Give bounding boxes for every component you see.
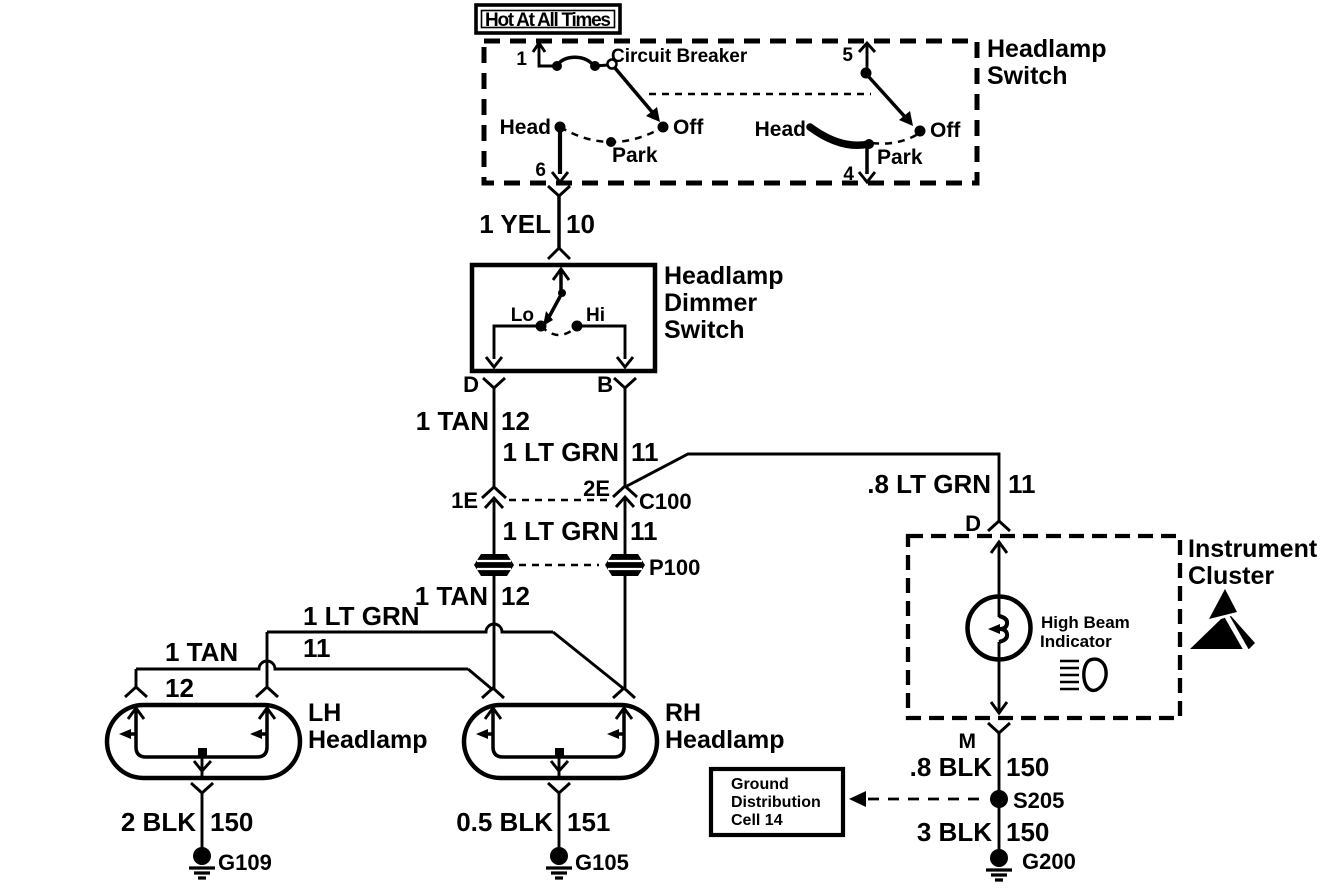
svg-text:Distribution: Distribution [731, 794, 821, 811]
switch lever to Off (right) [868, 76, 913, 126]
wire bulb to pin M [998, 661, 1001, 712]
contact Head (left) [555, 122, 566, 133]
diagonal TAN into RH left pin [468, 669, 493, 690]
wire TAN below P100 down to RH headlamp [493, 576, 496, 688]
wire 1 YEL [557, 196, 561, 248]
svg-text:P100: P100 [649, 555, 700, 580]
svg-text:1: 1 [516, 49, 527, 70]
LT GRN bus wire to LH headlamp [267, 624, 553, 632]
pin 1 arrow [516, 43, 556, 70]
svg-text:High Beam: High Beam [1041, 613, 1130, 632]
contact Off (right) [915, 126, 926, 137]
svg-text:Lo: Lo [511, 305, 534, 326]
svg-text:M: M [959, 730, 977, 753]
svg-text:6: 6 [535, 160, 546, 181]
svg-text:11: 11 [1008, 469, 1036, 499]
wiper thick arc Head position [810, 127, 869, 145]
svg-text:C100: C100 [639, 489, 692, 514]
svg-text:Indicator: Indicator [1040, 632, 1112, 651]
wire Park common to pin 4 [865, 146, 869, 174]
svg-text:1 LT GRN: 1 LT GRN [502, 516, 619, 546]
cluster entry arrow pin D [991, 542, 1007, 596]
svg-text:Headlamp: Headlamp [664, 262, 783, 290]
svg-text:1 TAN: 1 TAN [165, 637, 238, 667]
contact Off (left) [658, 122, 669, 133]
connector half below pin 6 [548, 186, 570, 196]
wire Hi to pin B [577, 326, 633, 367]
svg-text:D: D [965, 511, 981, 536]
connector half below cluster [959, 723, 1011, 753]
connector C100 pin 1E [451, 487, 506, 513]
wire LT GRN below P100 down to RH headlamp [624, 576, 627, 688]
wire Head to pin 6 [558, 130, 562, 174]
dimmer input arrow [553, 269, 569, 293]
wire 1E down to P100 [493, 499, 496, 555]
dimmer lever [543, 289, 566, 326]
svg-text:Park: Park [877, 146, 923, 169]
svg-text:3 BLK: 3 BLK [917, 817, 992, 847]
switch lever to Off (left) [615, 68, 660, 122]
LT GRN drop to LH right pin [266, 632, 269, 687]
P100 dashed line [519, 564, 599, 567]
svg-text:.8 BLK: .8 BLK [910, 752, 993, 782]
svg-text:Cluster: Cluster [1188, 562, 1274, 590]
high beam icon [1060, 659, 1106, 690]
connector halves above LH headlamp [125, 687, 147, 697]
contact Park (left) [606, 137, 616, 147]
diagonal LT GRN into RH right pin [553, 632, 624, 689]
ground G105 [546, 847, 629, 878]
svg-text:1E: 1E [451, 488, 478, 513]
svg-text:Instrument: Instrument [1188, 535, 1318, 563]
svg-text:Hi: Hi [586, 305, 605, 326]
LH headlamp [107, 705, 300, 779]
svg-text:1 TAN: 1 TAN [416, 406, 489, 436]
svg-text:10: 10 [566, 209, 595, 239]
svg-text:5: 5 [842, 45, 853, 66]
connector half below RH headlamp [548, 783, 570, 793]
svg-text:12: 12 [165, 673, 194, 703]
svg-text:11: 11 [631, 437, 659, 467]
connector half above instrument cluster pin D [988, 521, 1010, 531]
cluster exit arrow pin M [991, 702, 1007, 713]
svg-text:D: D [463, 372, 479, 397]
headlamp dimmer switch box [472, 265, 655, 371]
svg-text:.8 LT GRN: .8 LT GRN [867, 469, 991, 499]
svg-text:G109: G109 [218, 850, 272, 875]
pin B [597, 372, 636, 397]
svg-text:150: 150 [1006, 752, 1049, 782]
pivot dot (right switch) [861, 68, 872, 79]
RH headlamp [464, 705, 657, 779]
headlamp switch dashed box [484, 41, 977, 183]
svg-text:Park: Park [612, 144, 658, 167]
svg-text:Head: Head [500, 116, 551, 139]
wire .8 BLK to S205 [998, 733, 1001, 852]
wire B down to C100 [624, 388, 627, 487]
pin D [463, 372, 505, 397]
svg-text:1 LT GRN: 1 LT GRN [502, 437, 619, 467]
ground G109 [189, 847, 272, 878]
svg-text:2 BLK: 2 BLK [121, 807, 196, 837]
pin 5 arrow [842, 43, 875, 72]
contact Lo [536, 321, 547, 332]
wire Lo to pin D [486, 326, 541, 367]
svg-text:150: 150 [210, 807, 253, 837]
svg-text:11: 11 [630, 516, 658, 546]
C100 dashed line [509, 499, 607, 502]
svg-text:Switch: Switch [664, 316, 745, 344]
svg-text:Head: Head [755, 118, 806, 141]
dashed arc Head-Park-Off [560, 127, 663, 142]
connector half below LH headlamp [191, 783, 213, 793]
svg-text:Off: Off [930, 119, 961, 142]
svg-text:B: B [597, 372, 613, 397]
ground distribution cell box [711, 769, 843, 835]
TAN bus wire to LH headlamp [136, 661, 468, 669]
wire 0.5 BLK to G105 [558, 793, 561, 849]
grommet P100 right [605, 554, 700, 580]
svg-text:G105: G105 [575, 850, 629, 875]
svg-text:1 YEL: 1 YEL [479, 209, 551, 239]
svg-text:Headlamp: Headlamp [665, 726, 784, 754]
svg-text:12: 12 [501, 406, 530, 436]
dashed line to ground distribution [849, 791, 988, 807]
svg-text:S205: S205 [1013, 788, 1064, 813]
wire 2E down to P100 [624, 498, 627, 555]
splice S205 [990, 788, 1064, 813]
junction dot [552, 61, 562, 71]
high beam indicator bulb [968, 596, 1031, 661]
svg-text:1 LT GRN: 1 LT GRN [303, 601, 420, 631]
dashed arc Lo-Hi [541, 326, 577, 335]
wire D down to C100 [493, 388, 496, 488]
svg-text:Off: Off [673, 116, 704, 139]
connector halves above RH headlamp [482, 688, 504, 698]
TAN drop to LH left pin [135, 669, 138, 687]
power tag Hot At All Times [476, 5, 620, 33]
svg-text:Dimmer: Dimmer [664, 289, 757, 317]
svg-text:Hot At All Times: Hot At All Times [485, 10, 611, 31]
svg-text:151: 151 [567, 807, 610, 837]
ground G200 [986, 849, 1076, 880]
svg-text:11: 11 [303, 633, 331, 663]
svg-text:2E: 2E [583, 476, 610, 501]
svg-text:Switch: Switch [987, 62, 1068, 90]
switch linkage dashed line [649, 93, 871, 96]
branch wire .8 LT GRN to instrument cluster [627, 454, 999, 521]
svg-text:Headlamp: Headlamp [987, 35, 1106, 63]
svg-text:0.5 BLK: 0.5 BLK [456, 807, 553, 837]
svg-text:150: 150 [1006, 817, 1049, 847]
svg-text:12: 12 [501, 581, 530, 611]
svg-text:LH: LH [308, 699, 341, 727]
pin 6 arrow [535, 160, 568, 182]
connector half above dimmer [548, 248, 570, 259]
grommet P100 left [474, 554, 514, 576]
contact Park (right) [864, 139, 874, 149]
svg-text:Circuit Breaker: Circuit Breaker [611, 46, 748, 67]
connector C100 pin 2E [583, 476, 692, 514]
svg-text:1 TAN: 1 TAN [415, 581, 488, 611]
circuit breaker [557, 46, 748, 71]
wire 2 BLK to G109 [201, 793, 204, 849]
contact Hi [572, 321, 583, 332]
ESD symbol [1190, 589, 1255, 655]
dashed arc Park-Off (right) [872, 134, 918, 144]
pin 4 arrow [843, 164, 875, 185]
svg-text:RH: RH [665, 699, 701, 727]
svg-text:G200: G200 [1022, 849, 1076, 874]
svg-text:4: 4 [843, 164, 854, 185]
instrument cluster dashed box [908, 536, 1180, 718]
svg-text:Headlamp: Headlamp [308, 726, 427, 754]
svg-text:Cell 14: Cell 14 [731, 812, 783, 829]
svg-text:Ground: Ground [731, 776, 789, 793]
